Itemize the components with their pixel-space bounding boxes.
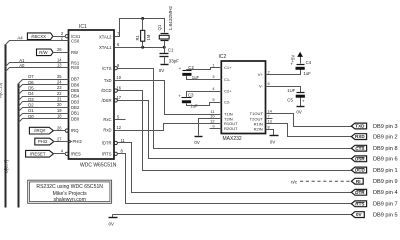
svg-text:XTAL2: XTAL2 <box>99 34 112 39</box>
svg-text:shalewyn.com: shalewyn.com <box>54 197 86 203</box>
svg-text:1uF: 1uF <box>190 104 198 109</box>
IC1 PHI2 clock marker <box>69 140 72 144</box>
svg-text:24: 24 <box>57 80 62 85</box>
svg-text:C1: C1 <box>168 48 174 53</box>
svg-text:/IRQ#: /IRQ# <box>34 128 46 133</box>
svg-text:1uF: 1uF <box>304 71 312 76</box>
svg-text:V+: V+ <box>258 72 264 77</box>
svg-text:A[0..15]: A[0..15] <box>0 83 3 98</box>
svg-text:DB9 pin 5: DB9 pin 5 <box>373 213 398 219</box>
svg-text:RxD: RxD <box>103 128 111 133</box>
svg-text:PHI2: PHI2 <box>73 139 83 144</box>
svg-text:D7: D7 <box>28 74 34 79</box>
wire C3 bottom to IC2 C2- pin5 <box>187 103 222 106</box>
wire D3 <box>19 102 69 107</box>
svg-text:C1+: C1+ <box>224 65 232 70</box>
svg-text:A0: A0 <box>19 63 25 68</box>
IC1 right pin names <box>99 34 112 156</box>
wire D2 <box>19 108 69 112</box>
ground 0V below C1 <box>159 65 169 73</box>
flag 0V DB9 pin 5 <box>351 212 397 219</box>
svg-text:DB9 pin 1: DB9 pin 1 <box>373 168 398 174</box>
svg-text:DB2: DB2 <box>71 105 80 110</box>
svg-text:27: 27 <box>57 136 62 141</box>
capacitor C5 1uF <box>287 88 305 106</box>
wire D4 <box>19 97 69 101</box>
flag /RESET <box>26 150 66 157</box>
svg-text:A4: A4 <box>17 35 23 40</box>
svg-text:0V: 0V <box>356 212 363 217</box>
svg-text:R1: R1 <box>135 34 140 40</box>
svg-text:DB7: DB7 <box>71 77 80 82</box>
ground 0V below C5 <box>296 107 304 115</box>
wire RxC stub n/c <box>115 119 126 121</box>
wire D5 <box>19 91 69 95</box>
wire C2 bottom to IC2 C1- pin3 <box>187 76 222 80</box>
svg-text:22: 22 <box>57 91 62 96</box>
svg-text:R2OUT: R2OUT <box>224 126 238 131</box>
svg-text:/RTS: /RTS <box>102 151 112 156</box>
svg-text:/DTR: /DTR <box>102 141 112 146</box>
wire T2OUT stub n/c <box>266 118 273 120</box>
svg-text:+: + <box>179 66 182 71</box>
capacitor C3 1uF <box>178 93 198 109</box>
svg-text:DB9 pin 9: DB9 pin 9 <box>373 179 398 185</box>
svg-text:8: 8 <box>268 124 270 129</box>
+5V supply arrow <box>291 52 303 64</box>
IC1 left pin names <box>71 34 82 157</box>
svg-text:DB3: DB3 <box>71 99 80 104</box>
flag /DSR DB9 pin 6 <box>351 156 397 163</box>
wire A4 to CS0 <box>6 41 69 45</box>
flag R/W <box>37 49 69 56</box>
wire A1 to RS1 <box>6 63 69 67</box>
wire R2OUT stub n/c <box>210 128 222 130</box>
svg-text:D1: D1 <box>28 108 34 113</box>
svg-text:0V: 0V <box>194 140 199 145</box>
svg-text:DB9 pin 2: DB9 pin 2 <box>373 135 398 141</box>
ground 0V at T2IN <box>194 137 202 145</box>
svg-text:18: 18 <box>57 114 62 119</box>
svg-text:/DSR: /DSR <box>101 98 111 103</box>
svg-text:19: 19 <box>57 108 62 113</box>
capacitor C2 1uF <box>179 65 200 80</box>
flag /RTS DB9 pin 7 <box>351 201 397 208</box>
svg-text:0V: 0V <box>159 68 164 73</box>
svg-text:D0: D0 <box>28 114 34 119</box>
IC1 W65C51N body <box>69 24 117 169</box>
svg-text:3: 3 <box>212 74 214 79</box>
svg-text:12: 12 <box>117 125 122 130</box>
svg-text:D3: D3 <box>28 97 34 102</box>
IC1 pin bubbles <box>65 35 117 156</box>
wire V- to C5 <box>266 87 301 93</box>
svg-text:13: 13 <box>268 119 272 124</box>
svg-text:Q1: Q1 <box>157 24 162 30</box>
wire D1 <box>19 114 69 118</box>
svg-text:DB9 pin 7: DB9 pin 7 <box>373 202 398 208</box>
wire R2IN to ground <box>266 130 274 136</box>
IC2 pin numbers <box>210 62 272 129</box>
svg-text:28: 28 <box>57 47 62 52</box>
IC2 right pin names <box>250 72 264 132</box>
svg-text:DB1: DB1 <box>71 111 80 116</box>
svg-text:2: 2 <box>268 69 270 74</box>
svg-text:5: 5 <box>212 97 214 102</box>
flag /CTS DB9 pin 8 <box>351 145 397 152</box>
wire XTAL1 net (IC1 pin 6 to R1 bottom, Q1 bottom, C1 top) <box>115 47 165 49</box>
capacitor C4 1uF <box>290 60 311 76</box>
svg-text:1.8432MHz: 1.8432MHz <box>168 5 174 30</box>
wire /DTR net (IC1 pin11 to DB9 pin4 flag) <box>118 143 352 193</box>
flag /IRQ# <box>29 127 65 134</box>
svg-text:C1-: C1- <box>224 77 231 82</box>
svg-text:DB5: DB5 <box>71 88 80 93</box>
svg-text:/RESET: /RESET <box>30 151 46 156</box>
svg-text:RI: RI <box>356 179 361 184</box>
svg-text:D6: D6 <box>28 80 34 85</box>
svg-text:+: + <box>178 94 181 99</box>
crystal Q1 1.8432MHz <box>157 5 174 47</box>
svg-text:DB4: DB4 <box>71 94 80 99</box>
svg-text:0V: 0V <box>296 110 301 115</box>
title block frame <box>28 180 112 203</box>
wire T2IN to ground <box>199 119 222 136</box>
wire XTAL2 net (IC1 pin 7 to R1 top and Q1 top) <box>115 19 165 37</box>
svg-text:PHI2: PHI2 <box>38 139 48 144</box>
wire 0V net to DB9 pin5 flag <box>113 214 352 216</box>
svg-text:Mike's Projects: Mike's Projects <box>53 191 88 197</box>
svg-text:D[0..7]: D[0..7] <box>4 160 9 173</box>
svg-text:+: + <box>302 99 305 104</box>
svg-text:R2IN: R2IN <box>254 127 263 132</box>
svg-text:C2-: C2- <box>224 100 231 105</box>
svg-text:D2: D2 <box>28 103 34 108</box>
svg-text:MAX232: MAX232 <box>223 136 242 142</box>
wire TxD net (IC1 pin10 to IC2 T1IN pin11) <box>115 81 222 115</box>
wire D0 <box>19 119 69 123</box>
resistor R1 1M <box>135 19 151 48</box>
svg-text:1UF: 1UF <box>287 88 295 93</box>
wire /RTS net (IC1 pin8 to DB9 pin7 flag) <box>118 154 352 204</box>
wire C3 top to IC2 C2+ pin4 <box>187 92 222 98</box>
ground 0V bottom <box>109 215 118 227</box>
svg-text:C2+: C2+ <box>224 89 232 94</box>
svg-text:R/W: R/W <box>39 50 48 55</box>
flag /DTR DB9 pin 4 <box>351 189 397 196</box>
svg-text:13: 13 <box>57 62 62 67</box>
flag RI DB9 pin 9 <box>351 178 397 185</box>
svg-text:+: + <box>290 62 293 67</box>
svg-text:/RES: /RES <box>71 151 81 156</box>
svg-text:0V: 0V <box>109 221 114 226</box>
svg-text:IRQ: IRQ <box>71 128 79 133</box>
capacitor C1 33pF <box>160 48 180 64</box>
svg-text:1M: 1M <box>146 34 151 40</box>
wire RI dashed n/c <box>300 180 352 182</box>
svg-text:C5: C5 <box>287 97 293 102</box>
flag PHI2 <box>35 138 69 145</box>
svg-text:21: 21 <box>57 97 62 102</box>
node junction dots XTAL <box>141 17 166 49</box>
svg-text:IC1: IC1 <box>79 24 87 30</box>
wire C2 top to IC2 C1+ pin1 <box>187 68 222 71</box>
svg-text:RW: RW <box>71 50 78 55</box>
flag /65CXX <box>27 33 65 40</box>
svg-text:C3: C3 <box>188 93 194 98</box>
wire D6 <box>19 85 69 89</box>
IC1 pin numbers <box>57 31 126 154</box>
wire R1IN to RXD flag (DB9 pin2) <box>266 124 352 137</box>
bus A[0..15] <box>5 45 7 208</box>
svg-text:DB9 pin 6: DB9 pin 6 <box>373 157 398 163</box>
svg-text:DB9 pin 4: DB9 pin 4 <box>373 190 398 196</box>
wire /DSR net (IC1 pin17 to DB9 pin6 flag) <box>118 101 352 159</box>
svg-text:WDC W65C51N: WDC W65C51N <box>80 163 117 169</box>
ground 0V at R2IN <box>270 136 279 145</box>
svg-text:DB9 pin 8: DB9 pin 8 <box>373 146 398 152</box>
flag TXD DB9 pin 3 <box>351 123 397 130</box>
svg-text:1: 1 <box>212 62 214 67</box>
wire RxD net (IC1 pin12 to IC2 R1OUT pin12) <box>115 124 222 131</box>
svg-text:25: 25 <box>57 74 62 79</box>
svg-text:10: 10 <box>117 75 122 80</box>
svg-text:TXD: TXD <box>355 124 365 129</box>
svg-text:RS232C using WDC 65C51N: RS232C using WDC 65C51N <box>36 184 103 190</box>
svg-text:D4: D4 <box>28 91 34 96</box>
svg-text:/65CXX: /65CXX <box>31 34 46 39</box>
svg-text:DB9 pin 3: DB9 pin 3 <box>373 124 398 130</box>
svg-text:/CTS: /CTS <box>102 66 112 71</box>
svg-text:6: 6 <box>268 81 270 86</box>
svg-text:CS0: CS0 <box>71 38 80 43</box>
wire /CTS net (IC1 pin9 to DB9 pin8 flag) <box>118 69 352 149</box>
IC2 left pin names <box>224 65 238 131</box>
IC2 MAX232 body <box>219 54 266 142</box>
svg-text:RXD: RXD <box>355 134 365 139</box>
svg-text:33pF: 33pF <box>169 58 179 63</box>
wire /DCD net (IC1 pin16 to DB9 pin1 flag) <box>118 91 352 171</box>
flag /DCD DB9 pin 1 <box>351 167 397 174</box>
svg-text:D5: D5 <box>28 86 34 91</box>
svg-text:TxD: TxD <box>104 78 112 83</box>
wire T1OUT to TXD flag (DB9 pin3) <box>266 114 352 127</box>
svg-text:23: 23 <box>57 85 62 90</box>
flag RXD DB9 pin 2 <box>351 134 397 141</box>
svg-text:V-: V- <box>259 84 263 89</box>
svg-text:DB0: DB0 <box>71 116 80 121</box>
svg-text:C4: C4 <box>306 60 312 65</box>
svg-text:20: 20 <box>57 102 62 107</box>
svg-text:/DCD: /DCD <box>101 88 111 93</box>
wire A0 to RS0 <box>6 68 69 72</box>
wire V+ to C4 <box>266 70 301 75</box>
svg-text:R1IN: R1IN <box>254 121 263 126</box>
svg-text:RxC: RxC <box>103 117 111 122</box>
svg-text:n/c: n/c <box>291 179 298 184</box>
svg-text:0V: 0V <box>270 139 275 144</box>
svg-text:DB6: DB6 <box>71 82 80 87</box>
svg-text:XTAL1: XTAL1 <box>99 45 112 50</box>
svg-text:26: 26 <box>57 125 62 130</box>
svg-text:9: 9 <box>212 124 214 129</box>
wire D7 <box>19 80 69 84</box>
bus D[0..7] <box>18 84 20 208</box>
svg-text:IC2: IC2 <box>219 54 227 60</box>
svg-text:RS0: RS0 <box>71 65 80 70</box>
